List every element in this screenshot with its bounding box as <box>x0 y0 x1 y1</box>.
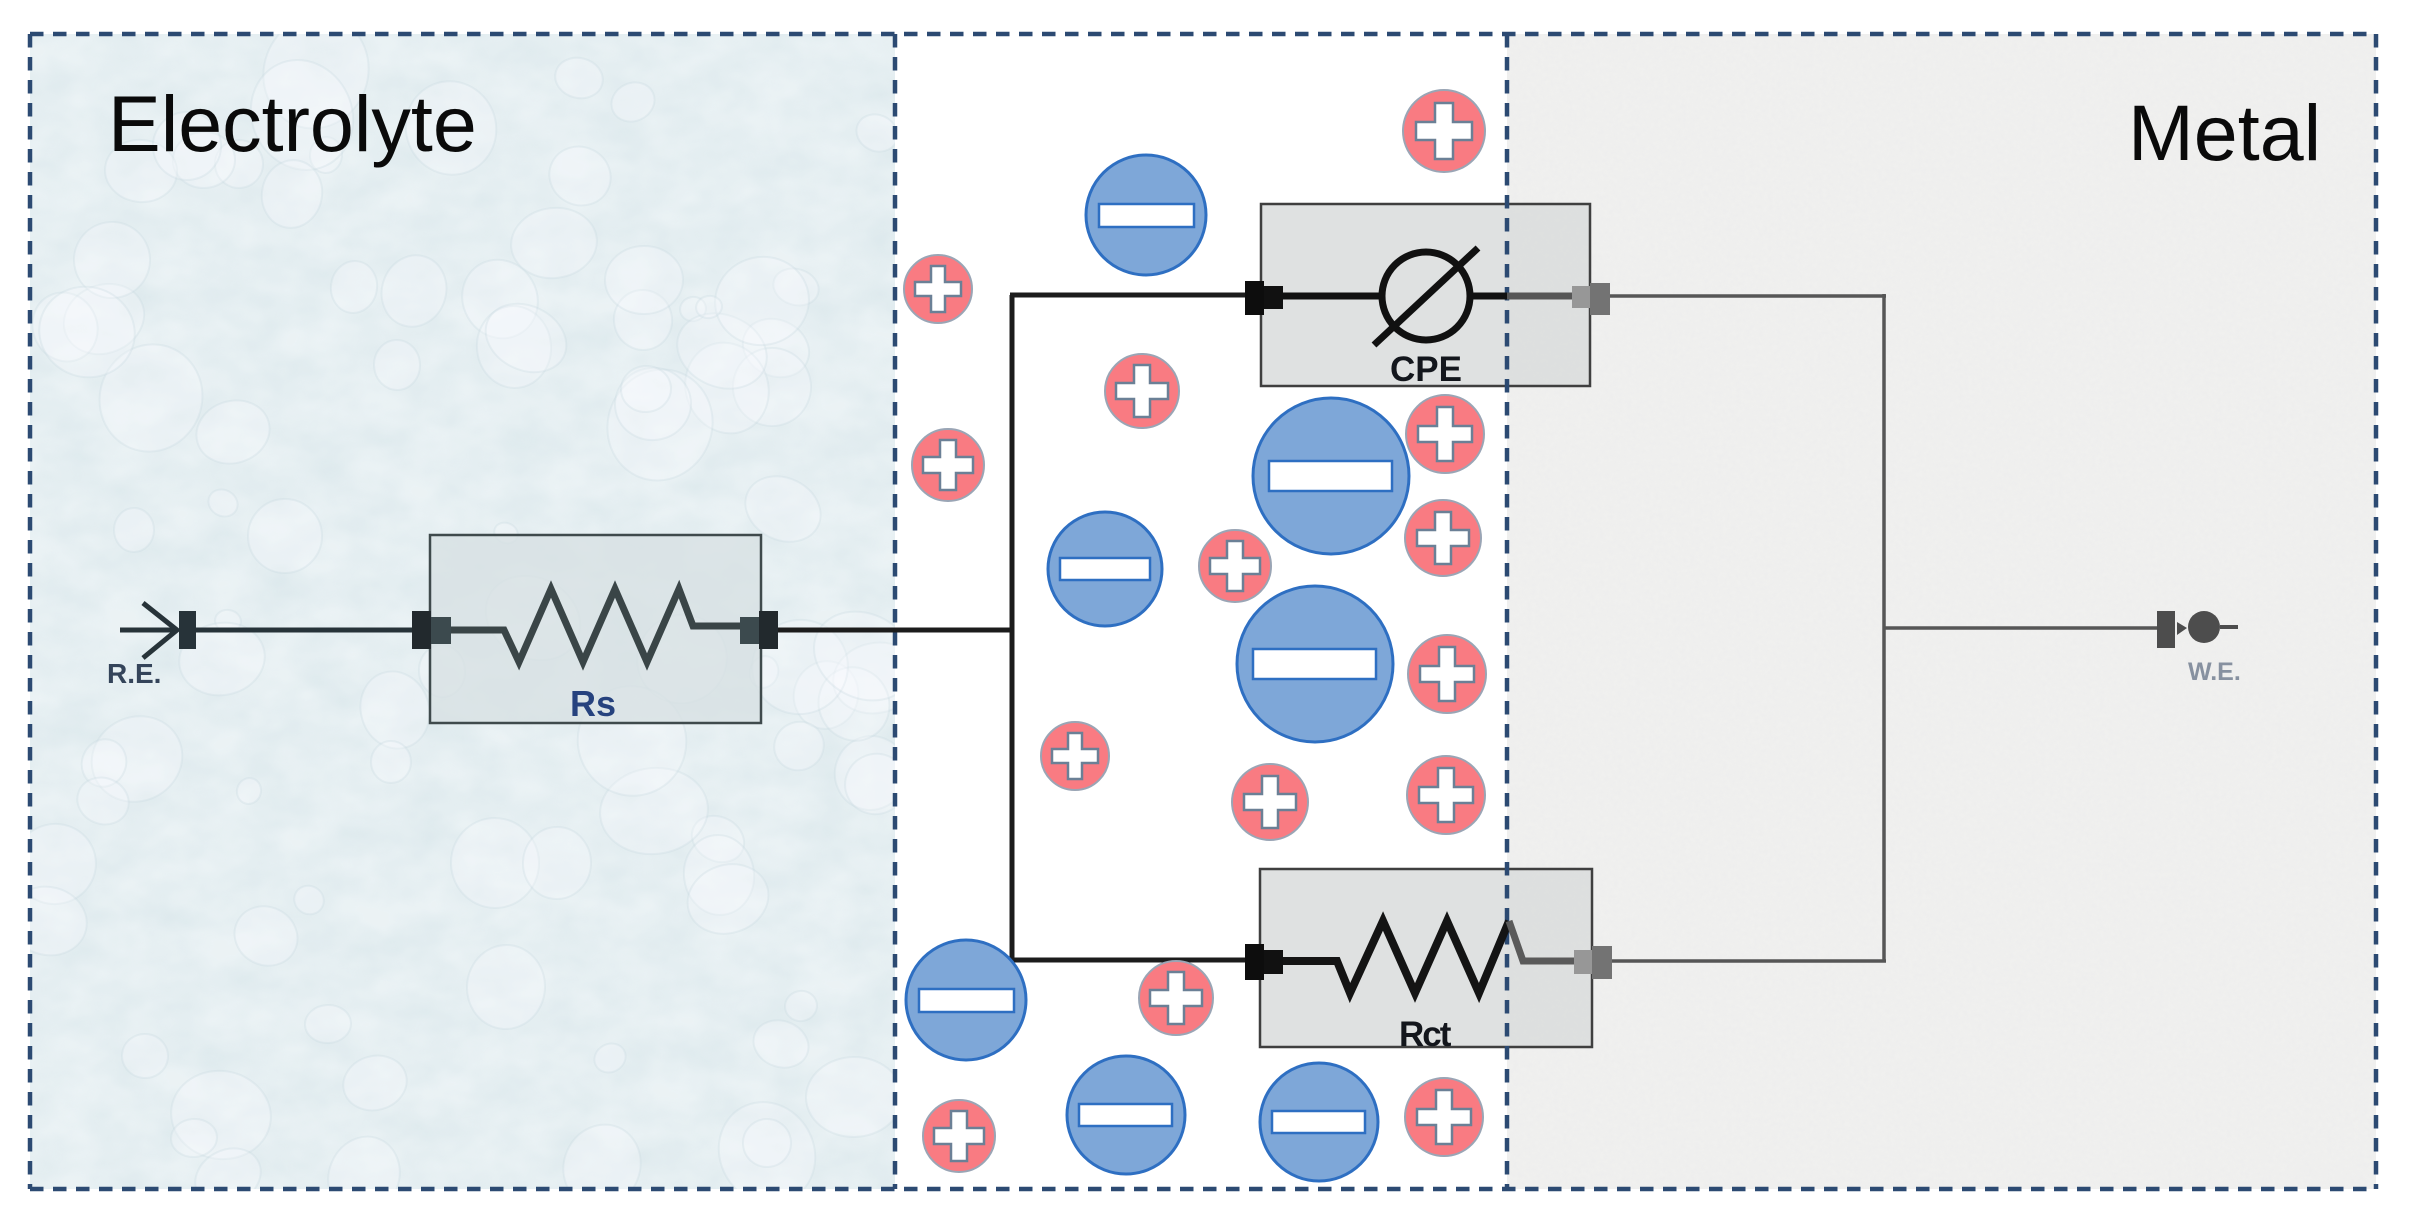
wire to W.E. <box>1884 626 2157 630</box>
cation P5 (plus ion) <box>1406 395 1484 473</box>
CPE box <box>1261 204 1590 386</box>
wire Rs to junction node <box>778 628 1014 633</box>
junction vertical wire <box>1010 295 1015 960</box>
resistor Rs box <box>430 535 761 723</box>
dashed divider double-layer/metal <box>1505 34 1510 1189</box>
cation P13 (plus ion) <box>923 1100 995 1172</box>
terminal W.E. <box>2157 611 2238 648</box>
wire R.E. to Rs <box>196 628 412 633</box>
pin pad Rct right <box>1574 950 1592 974</box>
cation P3 (plus ion) <box>1105 354 1179 428</box>
electrolyte region background <box>30 34 895 1189</box>
anion B4 (minus ion) <box>1237 586 1393 742</box>
anion B3 (minus ion) <box>1048 512 1162 626</box>
outer dashed frame bottom edge <box>30 1187 2376 1192</box>
svg-text:Rct: Rct <box>1399 1015 1452 1054</box>
pin pad CPE left <box>1245 281 1264 315</box>
cation P12 (plus ion) <box>1139 961 1213 1035</box>
anion B7 (minus ion) <box>1260 1063 1378 1181</box>
resistor Rct zigzag <box>1283 921 1509 993</box>
svg-text:Metal: Metal <box>2128 88 2321 177</box>
terminal R.E. <box>120 603 196 658</box>
pin pad CPE right <box>1572 286 1590 308</box>
op-amp CPE element symbol <box>1283 248 1574 345</box>
svg-text:W.E.: W.E. <box>2188 658 2241 686</box>
wire CPE to right vertical <box>1610 294 1886 298</box>
outer dashed frame left edge <box>28 34 33 1189</box>
cation P7 (plus ion) <box>1199 530 1271 602</box>
cation P8 (plus ion) <box>1408 635 1486 713</box>
cation P6 (plus ion) <box>1405 500 1481 576</box>
anion B5 (minus ion) <box>906 940 1026 1060</box>
pin pad Rct left <box>1245 944 1264 980</box>
resistor Rs zigzag <box>451 589 740 662</box>
wire top branch to CPE <box>1010 293 1250 298</box>
cation P4 (plus ion) <box>912 429 984 501</box>
cation P9 (plus ion) <box>1041 722 1109 790</box>
cation P11 (plus ion) <box>1407 756 1485 834</box>
dashed divider electrolyte/double-layer <box>893 34 898 1189</box>
right vertical wire <box>1882 294 1886 961</box>
wire Rct to right vertical <box>1612 959 1886 963</box>
svg-text:Rs: Rs <box>570 683 616 724</box>
metal region background <box>1507 34 2376 1189</box>
resistor Rct box <box>1260 869 1592 1047</box>
svg-text:CPE: CPE <box>1390 350 1462 389</box>
cation P14 (plus ion) <box>1405 1078 1483 1156</box>
anion B2 (minus ion) <box>1253 398 1409 554</box>
wire bottom branch to Rct <box>1010 958 1250 963</box>
pin pads Rs <box>412 611 778 649</box>
anion B6 (minus ion) <box>1067 1056 1185 1174</box>
anion B1 (minus ion) <box>1086 155 1206 275</box>
cation P1 (plus ion) <box>1403 90 1485 172</box>
outer dashed frame right edge <box>2374 34 2379 1189</box>
cation P10 (plus ion) <box>1232 764 1308 840</box>
cation P2 (plus ion) <box>904 255 972 323</box>
outer dashed frame top edge <box>30 32 2376 37</box>
svg-text:Electrolyte: Electrolyte <box>108 79 477 168</box>
svg-text:R.E.: R.E. <box>107 658 161 689</box>
